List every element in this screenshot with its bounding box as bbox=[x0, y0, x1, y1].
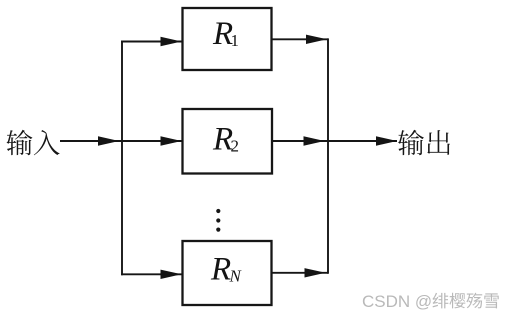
wire R1 output bbox=[272, 35, 329, 44]
node 输入 (input) bbox=[7, 130, 60, 155]
svg-text:R: R bbox=[210, 252, 231, 288]
svg-text:1: 1 bbox=[231, 31, 240, 50]
ellipsis dots bbox=[216, 209, 220, 232]
node 输出 (output) bbox=[398, 130, 450, 155]
wire input horizontal bbox=[60, 136, 183, 145]
wire right merge vertical bbox=[327, 38, 329, 273]
wire RN output bbox=[272, 268, 329, 277]
wire R2 output / output horizontal bbox=[272, 136, 397, 145]
svg-text:N: N bbox=[229, 267, 243, 286]
svg-text:CSDN @: CSDN @ bbox=[362, 292, 432, 311]
watermark CSDN @绯樱殇雪 bbox=[362, 292, 499, 311]
wire branch to R1 bbox=[121, 37, 182, 46]
block RN bbox=[183, 241, 272, 305]
wire branch to RN bbox=[121, 270, 182, 279]
svg-text:2: 2 bbox=[231, 137, 240, 156]
block R2 bbox=[183, 109, 273, 174]
wire left branch vertical bbox=[121, 41, 123, 276]
block R1 bbox=[183, 8, 272, 70]
